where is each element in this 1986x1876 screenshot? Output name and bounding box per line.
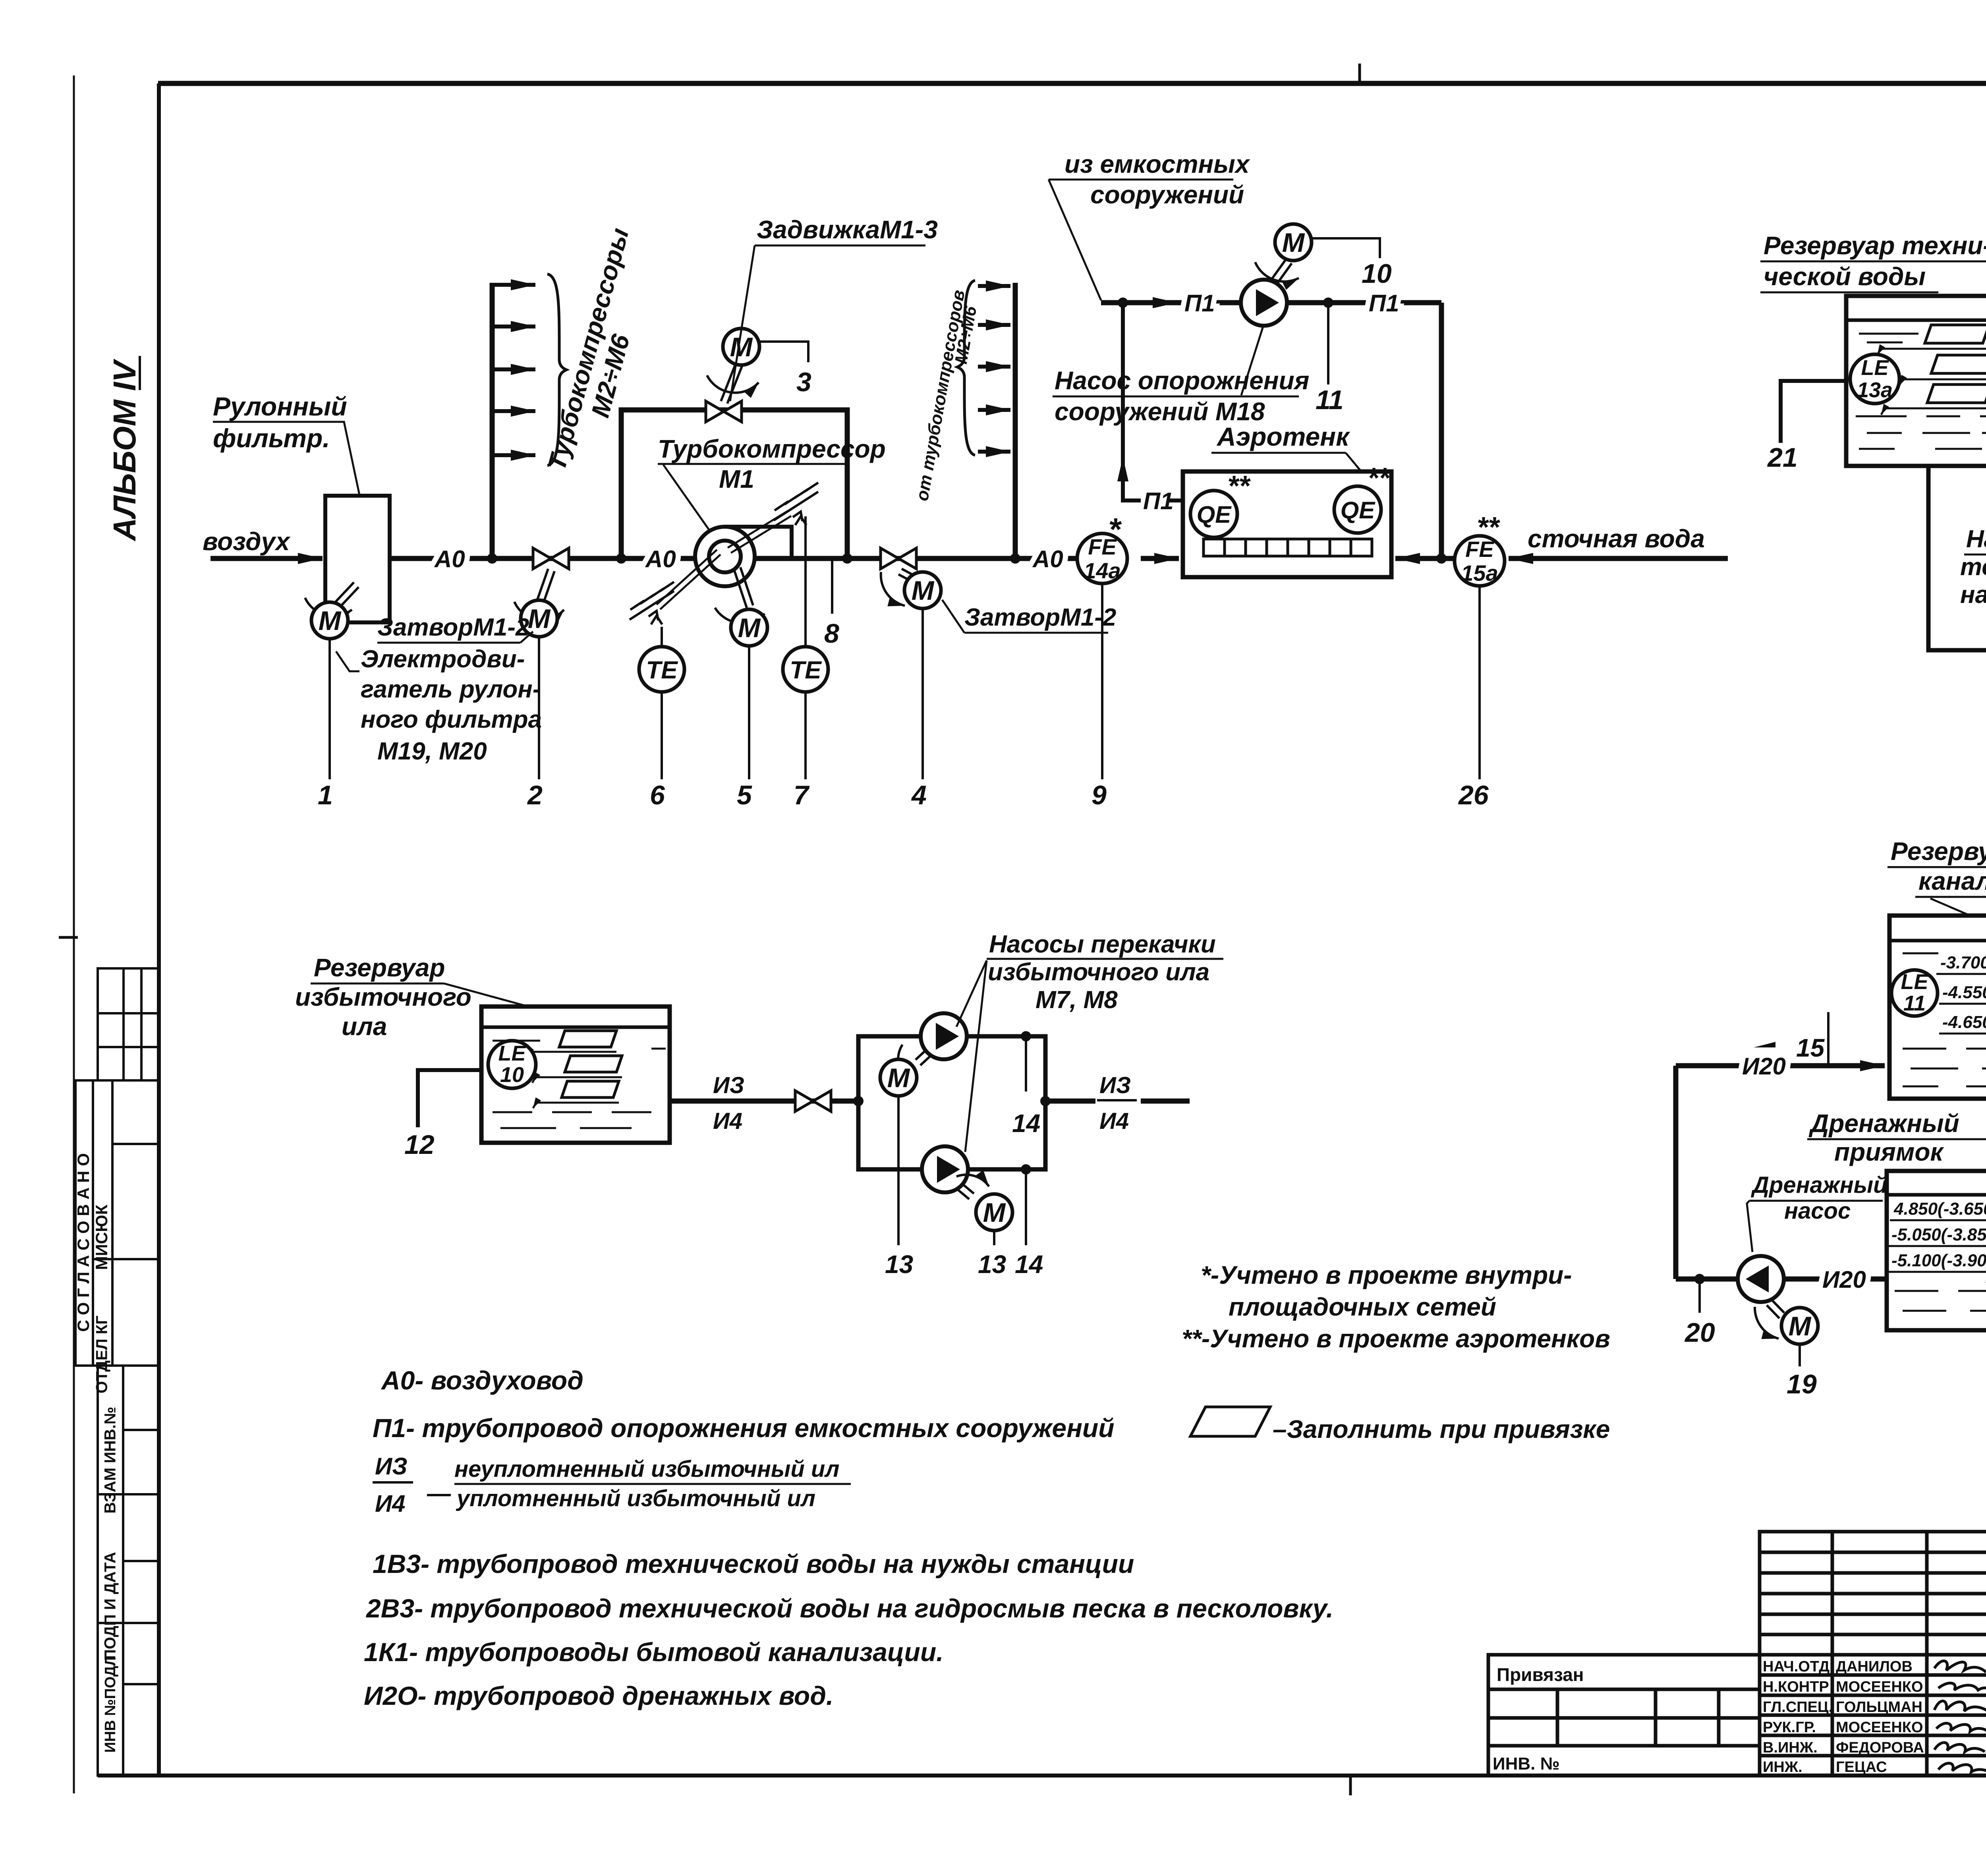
svg-text:-5.100(-3.900): -5.100(-3.900): [1891, 1251, 1986, 1270]
svg-text:на гидросмыв песка: на гидросмыв песка: [1960, 581, 1986, 609]
svg-text:-5.050(-3.850): -5.050(-3.850): [1891, 1225, 1986, 1244]
svg-text:20: 20: [1684, 1318, 1715, 1348]
svg-text:ТЕ: ТЕ: [790, 657, 822, 684]
wire П1 header line: [1101, 300, 1441, 305]
outer thin border line left: [73, 75, 75, 1793]
svg-text:**: **: [1477, 512, 1500, 543]
valve задвижка М1-3: [706, 401, 742, 422]
svg-text:5: 5: [737, 780, 752, 810]
svg-text:13: 13: [978, 1250, 1006, 1279]
wire motor5 to 5: [748, 646, 750, 779]
svg-text:ГЕЦАС: ГЕЦАС: [1836, 1759, 1887, 1776]
svg-text:И4: И4: [1099, 1108, 1129, 1134]
motor M19 M20 of roll filter: [311, 602, 348, 639]
wire drain pump suction: [1676, 1277, 1737, 1282]
svg-text:Насосы перекачки: Насосы перекачки: [1966, 526, 1986, 553]
svg-text:канализации: канализации: [1918, 867, 1986, 895]
svg-text:LE: LE: [1861, 356, 1889, 380]
node 11 stub: [1323, 298, 1333, 308]
svg-text:ИЗ: ИЗ: [375, 1453, 408, 1480]
QE sensor right: [1334, 486, 1381, 533]
drain pit tank: [1887, 1171, 1986, 1330]
svg-text:ЗатворМ1-2: ЗатворМ1-2: [964, 604, 1116, 631]
plate skimmer 2: [1931, 355, 1986, 373]
shaft valve right to motor 4: [881, 569, 914, 606]
sewage tank level line: [1889, 939, 1986, 943]
motor drain pump: [1781, 1308, 1818, 1344]
pump М8: [922, 1146, 968, 1192]
shaft valve to motor 2: [514, 569, 564, 620]
bearing lower left: [630, 582, 674, 624]
water dashes: [1856, 334, 1986, 449]
wire pump to pit: [1785, 1277, 1887, 1282]
left margin stamp: vzam/podp/inv section: [98, 1366, 159, 1776]
svg-text:Н.КОНТР: Н.КОНТР: [1763, 1679, 1829, 1695]
centering tick left: [59, 936, 78, 939]
svg-text:ИНВ №ПОДЛ: ИНВ №ПОДЛ: [102, 1655, 119, 1752]
leader задвижка to valve: [730, 245, 755, 401]
svg-text:—: —: [427, 1480, 451, 1507]
svg-text:Аэротенк: Аэротенк: [1216, 422, 1350, 451]
pit dashes: [1895, 1208, 1986, 1311]
sludge water dashes: [493, 1041, 666, 1128]
svg-text:ЗадвижкаМ1-3: ЗадвижкаМ1-3: [757, 215, 938, 244]
svg-text:И20: И20: [1742, 1053, 1786, 1080]
svg-text:ФЕДОРОВА: ФЕДОРОВА: [1836, 1739, 1924, 1756]
svg-text:**-Учтено в проекте аэротенков: **-Учтено в проекте аэротенков: [1182, 1324, 1610, 1353]
svg-text:ГОЛЬЦМАН: ГОЛЬЦМАН: [1836, 1699, 1922, 1716]
svg-text:МИСЮК: МИСЮК: [92, 1204, 111, 1270]
wire П1 stub into aerotank: [1169, 498, 1183, 502]
svg-text:3: 3: [796, 367, 811, 397]
brace от турбокомпрессоров: [957, 280, 975, 455]
svg-text:19: 19: [1787, 1369, 1817, 1399]
svg-text:ДАНИЛОВ: ДАНИЛОВ: [1836, 1658, 1913, 1675]
motor М7: [880, 1059, 917, 1096]
node П1 branch: [1118, 298, 1128, 308]
svg-text:избыточного: избыточного: [295, 983, 471, 1011]
plate level wires sludge: [526, 1052, 622, 1108]
svg-text:сооружений: сооружений: [1090, 180, 1244, 209]
svg-text:9: 9: [1092, 780, 1107, 810]
svg-text:-4.650(-3.450): -4.650(-3.450): [1942, 1012, 1986, 1032]
svg-text:Насосы перекачки: Насосы перекачки: [989, 931, 1216, 958]
wire motor М18 hook to 10: [1312, 238, 1380, 258]
tank water level line: [1846, 319, 1986, 322]
wire motor4 to 4: [922, 609, 924, 779]
shaft compressor to motor 5: [715, 567, 765, 623]
svg-text:10: 10: [1362, 259, 1392, 289]
leader аэротенк to box: [1346, 453, 1362, 472]
svg-text:фильтр.: фильтр.: [213, 423, 330, 453]
svg-text:13: 13: [885, 1250, 913, 1279]
svg-text:ИЗ: ИЗ: [1099, 1072, 1131, 1098]
svg-text:21: 21: [1767, 442, 1798, 473]
wire П1 down to main water line: [1439, 303, 1444, 558]
svg-text:12: 12: [404, 1130, 435, 1160]
svg-text:ОТДЕЛ КГ: ОТДЕЛ КГ: [93, 1316, 111, 1393]
LE sensor 10: [488, 1041, 536, 1088]
shaft valve M1-3 to motor: [707, 364, 759, 404]
wire 14 bottom stub: [1025, 1169, 1027, 1245]
label ИЗ/И4 left: [713, 1072, 744, 1134]
centering tick bottom: [1349, 1775, 1352, 1795]
svg-text:Насос опорожнения: Насос опорожнения: [1055, 366, 1309, 395]
svg-text:2: 2: [527, 780, 543, 810]
leader из емкостных to П1 line: [1049, 180, 1101, 300]
svg-text:Рулонный: Рулонный: [213, 392, 347, 421]
leader резервуар быт to tank: [1930, 898, 1970, 916]
wire TE6 stem: [661, 627, 663, 647]
svg-text:П1: П1: [1184, 290, 1215, 317]
svg-text:М1: М1: [719, 465, 754, 493]
motor of compressor М1: [731, 609, 767, 646]
svg-text:8: 8: [824, 618, 839, 649]
pump М18: [1241, 280, 1287, 326]
wire FE14a to 9: [1101, 583, 1103, 779]
svg-text:-4.550 (-3.350): -4.550 (-3.350): [1942, 983, 1986, 1002]
wire tank to 21: [1781, 381, 1846, 443]
wire TE6 to 6: [661, 692, 663, 779]
shaft М7 to motor: [898, 1045, 931, 1081]
QE sensor left: [1190, 491, 1237, 537]
wire TE7 to 7: [804, 692, 807, 779]
drain pump: [1738, 1256, 1784, 1302]
svg-text:Дренажный: Дренажный: [1750, 1172, 1887, 1198]
svg-text:1К1- трубопроводы бытовой ка: 1К1- трубопроводы бытовой канализации.: [364, 1637, 944, 1667]
svg-text:И4: И4: [713, 1108, 742, 1134]
svg-text:6: 6: [650, 780, 665, 810]
svg-text:ЗатворМ1-2: ЗатворМ1-2: [377, 614, 529, 641]
arrow on П1 line: [1144, 300, 1177, 305]
shaft drain pump to motor: [1755, 1300, 1784, 1339]
svg-text:И20: И20: [1822, 1266, 1866, 1293]
leader турбокомпрессор to scroll: [663, 465, 715, 538]
svg-text:М7, М8: М7, М8: [1036, 986, 1118, 1014]
wire motor2 to 2: [538, 637, 540, 779]
flag vent: [1754, 1042, 1775, 1047]
wire сточная вода into FE15a: [1509, 556, 1728, 561]
bearing upper right: [774, 483, 818, 525]
motor М8: [976, 1194, 1012, 1231]
svg-text:МОСЕЕНКО: МОСЕЕНКО: [1836, 1719, 1923, 1736]
left margin stamp: soglasovano section: [75, 1080, 159, 1366]
svg-text:АЛЬБОМ IV: АЛЬБОМ IV: [107, 359, 142, 541]
node compressor box right: [842, 553, 852, 564]
svg-text:П1: П1: [1369, 290, 1399, 317]
svg-text:QE: QE: [1197, 501, 1232, 528]
svg-text:ПОДП И ДАТА: ПОДП И ДАТА: [102, 1552, 119, 1661]
node sludge box out: [1040, 1096, 1051, 1106]
LE sensor 13a: [1850, 354, 1899, 404]
plate 2 sludge: [565, 1056, 622, 1072]
wire motor to 19: [1799, 1344, 1801, 1366]
svg-text:14: 14: [1015, 1250, 1043, 1279]
riser from turbocompressors: [1013, 283, 1018, 558]
wire tank bottom to 2В3: [1928, 466, 1986, 650]
svg-text:QE: QE: [1341, 497, 1376, 524]
svg-text:ИНВ. №: ИНВ. №: [1493, 1754, 1560, 1774]
sewage tank: [1889, 916, 1986, 1099]
wire М8 motor to 13: [993, 1231, 995, 1245]
pump М7: [921, 1013, 967, 1059]
sludge tank: [481, 1007, 670, 1143]
TE sensor 7: [783, 647, 828, 692]
wire воздух inlet arrow: [211, 556, 323, 561]
arrows from turbocompressors: [978, 286, 1010, 452]
wire А0 main air line: [390, 556, 1102, 561]
wire TE7 stem: [804, 516, 807, 647]
svg-text:воздух: воздух: [203, 527, 291, 556]
svg-text:Дренажный: Дренажный: [1808, 1109, 1959, 1138]
aerotank box: [1183, 471, 1391, 577]
svg-text:**: **: [1227, 470, 1251, 502]
svg-text:неуплотненный избыточный ил: неуплотненный избыточный ил: [454, 1456, 839, 1482]
LE sensor 11: [1891, 970, 1938, 1016]
svg-text:2В3- трубопровод технической: 2В3- трубопровод технической воды на гид…: [365, 1594, 1333, 1623]
svg-text:А0: А0: [645, 546, 676, 572]
plate 3 sludge: [562, 1081, 619, 1097]
svg-text:ческой воды: ческой воды: [1764, 262, 1926, 291]
svg-text:Электродви-: Электродви-: [361, 645, 525, 673]
svg-text:П1- трубопровод опорожнения е: П1- трубопровод опорожнения емкостных со…: [373, 1413, 1115, 1443]
FE sensor 14a: [1077, 533, 1127, 583]
leader насос to pump: [1747, 1201, 1752, 1252]
brace turbocompressors М2-М6: [547, 274, 566, 466]
wire out ИЗ/И4: [1045, 1099, 1095, 1104]
svg-text:А0: А0: [1032, 546, 1063, 572]
leader затвор right to motor: [942, 600, 964, 633]
svg-text:М19, М20: М19, М20: [377, 738, 487, 765]
frame top border: [158, 81, 1986, 86]
motor of задвижка М1-3: [723, 328, 759, 365]
svg-text:-3.700(-2.500): -3.700(-2.500): [1940, 953, 1986, 972]
svg-text:ИНЖ.: ИНЖ.: [1763, 1759, 1802, 1776]
sewage dashes: [1903, 953, 1986, 1086]
svg-text:4.850(-3.650): 4.850(-3.650): [1893, 1199, 1986, 1219]
svg-text:Резервуар техни-: Резервуар техни-: [1764, 231, 1986, 260]
svg-text:приямок: приямок: [1834, 1138, 1944, 1166]
node П1/water: [1436, 553, 1447, 564]
leader приямок to pit: [1962, 1139, 1986, 1170]
roll filter box: [325, 496, 390, 622]
wire stub 15: [1827, 1012, 1830, 1066]
wire stub 8: [831, 558, 833, 614]
svg-text:И2О- трубопровод дренажных в: И2О- трубопровод дренажных вод.: [364, 1681, 833, 1710]
title block grid: [1760, 1532, 1986, 1776]
svg-text:С О Г Л А С О В А Н О: С О Г Л А С О В А Н О: [74, 1153, 93, 1332]
svg-text:МОСЕЕНКО: МОСЕЕНКО: [1836, 1679, 1923, 1695]
wire ИЗ out of tank: [670, 1099, 858, 1104]
arrow up on П1 branch: [1121, 457, 1125, 489]
motor of М18: [1275, 224, 1312, 261]
wire tank to 12: [418, 1070, 481, 1127]
svg-text:уплотненный избыточный ил: уплотненный избыточный ил: [456, 1486, 815, 1511]
svg-text:НАЧ.ОТД.: НАЧ.ОТД.: [1763, 1658, 1834, 1675]
wire П1 branch down to aerotank: [1123, 303, 1141, 500]
svg-text:13а: 13а: [1857, 378, 1893, 402]
node sludge box in: [853, 1096, 864, 1106]
wire motor3 hook to 3: [759, 342, 808, 362]
svg-text:избыточного ила: избыточного ила: [988, 958, 1209, 986]
svg-text:14: 14: [1012, 1109, 1040, 1138]
compressor scroll М1: [695, 527, 792, 586]
plate skimmer 3: [1927, 384, 1986, 403]
riser to turbocompressors: [490, 283, 495, 558]
wire stub 20: [1698, 1279, 1701, 1313]
svg-text:**: **: [1367, 462, 1391, 494]
wire М7 motor to 13: [897, 1096, 900, 1245]
svg-text:ного фильтра: ного фильтра: [361, 706, 542, 733]
arrows to turbocompressors: [492, 285, 535, 455]
pit level line: [1887, 1193, 1986, 1197]
label ИЗ/И4 right: [1099, 1072, 1131, 1134]
node 14 top: [1021, 1031, 1031, 1041]
parallelogram заполнить: [1190, 1407, 1270, 1436]
svg-text:из емкостных: из емкостных: [1064, 150, 1250, 178]
svg-text:4: 4: [911, 780, 927, 810]
node 20: [1694, 1274, 1705, 1284]
left margin stamp: upper small cells: [98, 968, 159, 1080]
svg-text:11: 11: [1903, 991, 1926, 1015]
svg-text:26: 26: [1458, 780, 1489, 810]
leader затвор М1-2 to motor: [520, 632, 533, 643]
wire motor to 1: [328, 639, 331, 779]
leaders М7 М8: [956, 960, 987, 1152]
wire inner 14 top: [1025, 1036, 1027, 1092]
svg-text:А0- воздуховод: А0- воздуховод: [381, 1366, 583, 1395]
node 14 bottom: [1021, 1164, 1031, 1175]
pump group 4 box: [858, 1036, 1045, 1169]
svg-text:7: 7: [794, 780, 810, 810]
svg-text:ТЕ: ТЕ: [646, 657, 678, 684]
sludge tank level line: [481, 1026, 670, 1029]
shaft pump М18 to motor: [1255, 260, 1299, 283]
svg-text:Турбокомпрессор: Турбокомпрессор: [658, 435, 886, 463]
wire stub 11: [1327, 303, 1329, 384]
svg-text:ГЛ.СПЕЦ.: ГЛ.СПЕЦ.: [1763, 1699, 1833, 1716]
FE sensor 15a: [1455, 536, 1505, 586]
svg-text:Привязан: Привязан: [1497, 1664, 1584, 1685]
node compressor box left: [616, 553, 626, 564]
svg-text:А0: А0: [434, 546, 465, 572]
svg-text:LE: LE: [498, 1041, 526, 1065]
node riser1/main: [487, 553, 497, 564]
privyazan block: [1488, 1655, 1760, 1776]
valve затвор М1-2 left: [533, 548, 569, 569]
svg-text:сточная вода: сточная вода: [1528, 524, 1705, 553]
tech water tank: [1846, 296, 1986, 466]
svg-text:15а: 15а: [1461, 560, 1498, 585]
aerator squares row: [1204, 539, 1372, 556]
centering tick top: [1358, 64, 1361, 84]
motor of затвор М1-2: [521, 600, 557, 637]
thin shaft line to bearing lower: [657, 550, 721, 609]
thin shaft line to bearing: [728, 511, 791, 553]
frame left border: [157, 83, 161, 1776]
svg-text:15: 15: [1796, 1034, 1825, 1062]
svg-text:насос: насос: [1784, 1198, 1851, 1224]
svg-text:–Заполнить при привязке: –Заполнить при привязке: [1273, 1415, 1610, 1443]
svg-text:ила: ила: [342, 1012, 387, 1041]
svg-text:технической воды: технической воды: [1960, 553, 1986, 581]
signatures squiggles: [1934, 1661, 1986, 1772]
svg-text:В.ИНЖ.: В.ИНЖ.: [1763, 1739, 1818, 1756]
valve затвор М1-2 right: [881, 548, 916, 569]
svg-text:Резервуар бытовой: Резервуар бытовой: [1891, 837, 1986, 866]
plate 1 sludge: [559, 1031, 616, 1047]
plate skimmer 1: [1925, 325, 1986, 343]
svg-text:1: 1: [318, 780, 333, 810]
leader рулонный фильтр: [213, 422, 359, 495]
svg-text:ВЗАМ ИНВ.№: ВЗАМ ИНВ.№: [102, 1407, 119, 1514]
leader резервуар ила to tank: [444, 983, 528, 1007]
svg-text:14а: 14а: [1084, 558, 1121, 583]
arrow into aerotank left: [1141, 556, 1179, 561]
plate level wires: [1877, 349, 1986, 415]
svg-text:И4: И4: [375, 1490, 406, 1517]
frame bottom border: [98, 1774, 1986, 1777]
motor of затвор М1-2 right: [904, 572, 941, 609]
svg-text:*: *: [1108, 512, 1122, 547]
shaft М8 to motor: [956, 1175, 989, 1199]
leader насос опорожнения to pump: [1241, 327, 1263, 395]
valve sludge: [795, 1091, 831, 1111]
svg-text:LE: LE: [1901, 970, 1929, 994]
leader резервуар to tank: [1982, 261, 1986, 296]
wire И20 into sewage tank: [1676, 1063, 1885, 1068]
turbocompressor М1 housing loop: [621, 410, 847, 556]
wire out ИЗ/И4 tail: [1141, 1099, 1190, 1104]
svg-text:ИЗ: ИЗ: [713, 1072, 744, 1098]
leader электродвигатель: [336, 651, 359, 671]
svg-text:гатель рулон-: гатель рулон-: [361, 676, 541, 703]
TE sensor 6: [639, 647, 684, 692]
wire FE15a to 26: [1478, 586, 1481, 779]
svg-text:10: 10: [500, 1063, 524, 1087]
wire water into aerotank right: [1395, 556, 1455, 561]
svg-text:площадочных сетей: площадочных сетей: [1229, 1293, 1496, 1321]
shaft filter motor: [305, 582, 359, 616]
svg-text:*-Учтено в проекте внутри-: *-Учтено в проекте внутри-: [1201, 1261, 1572, 1289]
wire left drain riser: [1673, 1066, 1679, 1279]
node riser2/main: [1010, 553, 1020, 564]
svg-text:1В3- трубопровод технической: 1В3- трубопровод технической воды на нуж…: [373, 1549, 1134, 1578]
svg-text:РУК.ГР.: РУК.ГР.: [1763, 1719, 1816, 1736]
legend ИЗ/И4: [375, 1453, 451, 1517]
svg-text:Резервуар: Резервуар: [314, 953, 445, 982]
svg-text:11: 11: [1316, 385, 1344, 415]
